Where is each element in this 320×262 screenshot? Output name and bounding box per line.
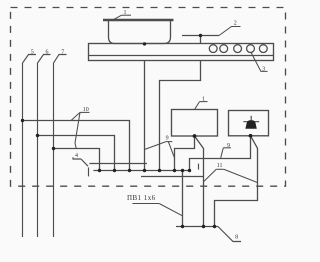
- label 1 top shelf: [122, 14, 132, 16]
- feeder wire 8: [218, 227, 241, 242]
- node bus 8: [188, 169, 191, 172]
- box U1: [172, 110, 218, 137]
- svg-text:5: 5: [31, 49, 34, 55]
- wire 6 vertical with leader: [38, 55, 51, 238]
- node wire6 tap: [36, 134, 39, 137]
- node bus 7: [181, 169, 184, 172]
- switch blade: [81, 159, 88, 166]
- panel hole 3: [234, 45, 242, 53]
- label 9 right leader: [221, 148, 224, 158]
- cable label shelf: [132, 203, 159, 205]
- box U1 right diagonal wire: [195, 136, 204, 227]
- riser wire: [182, 171, 184, 227]
- node box U2: [249, 134, 253, 138]
- node box U1: [193, 134, 197, 138]
- node bus 5: [158, 169, 161, 172]
- svg-text:10: 10: [83, 107, 89, 113]
- label 11 leader b: [224, 169, 258, 182]
- wire A horizontal to bus: [23, 121, 130, 171]
- panel hole 2: [220, 45, 228, 53]
- cord wire 2 horizontal: [182, 35, 219, 37]
- switch terminal bar: [88, 167, 90, 176]
- panel hole 5: [259, 45, 267, 53]
- label 11 shelf: [216, 168, 223, 170]
- cord wire 2 drop: [160, 36, 201, 171]
- svg-text:11: 11: [217, 163, 223, 169]
- box U1 label leader: [195, 102, 200, 110]
- parallel wire below bus: [141, 176, 204, 178]
- svg-text:4: 4: [75, 153, 78, 159]
- node wire5 tap: [21, 119, 24, 122]
- svg-text:2: 2: [234, 21, 237, 27]
- wire 7 vertical with leader: [54, 55, 67, 238]
- svg-text:1: 1: [124, 10, 127, 16]
- label 2 leader: [219, 27, 241, 36]
- label 9 left leader b: [168, 142, 174, 158]
- label 9 left leader a: [145, 142, 166, 150]
- node bus 1: [98, 169, 101, 172]
- label 9 left shelf: [166, 141, 172, 143]
- svg-text:6: 6: [46, 49, 49, 55]
- svg-text:ПВ1 1х6: ПВ1 1х6: [127, 194, 156, 202]
- box U1 left wire: [175, 136, 195, 171]
- panel hole 1: [209, 45, 217, 53]
- panel inner line: [89, 55, 274, 57]
- svg-text:8: 8: [235, 235, 238, 241]
- label 3 leader: [251, 52, 268, 71]
- node kettle on panel: [143, 42, 146, 45]
- wire B horizontal to bus: [38, 136, 115, 171]
- label 10 shelf: [80, 111, 90, 113]
- node bus 3: [128, 169, 131, 172]
- svg-text:7: 7: [61, 49, 64, 55]
- node bus 2: [113, 169, 116, 172]
- kettle body: [109, 21, 171, 44]
- label 10 leader b: [75, 112, 80, 148]
- wire C horizontal to bus: [54, 149, 100, 171]
- panel hole 4: [247, 45, 255, 53]
- branch wire bus end to box U2: [190, 136, 251, 171]
- lower bus: [176, 226, 218, 228]
- node lower bus 3: [213, 225, 216, 228]
- label 10 leader a: [71, 112, 80, 120]
- box U2 lamp: [229, 111, 269, 136]
- node cord tap: [199, 34, 202, 37]
- counter panel body: [89, 44, 274, 61]
- cable label leader: [159, 204, 182, 216]
- svg-text:1: 1: [202, 97, 205, 103]
- wire 5 vertical with leader: [23, 55, 37, 238]
- lamp crossbar: [243, 121, 259, 123]
- svg-text:9: 9: [166, 136, 169, 142]
- node lower bus 1: [181, 225, 184, 228]
- kettle drop wire: [144, 44, 146, 171]
- node bus 6: [173, 169, 176, 172]
- lamp shade: [245, 120, 256, 129]
- upper bus: [93, 170, 189, 172]
- svg-text:3: 3: [262, 67, 265, 73]
- parallel wire above bus: [89, 163, 147, 165]
- terminal bar I at bus right: [198, 164, 200, 170]
- label 9 right shelf: [223, 147, 231, 149]
- label 1 top leader: [114, 15, 122, 19]
- box U2 down wire: [215, 136, 258, 227]
- node wire7 tap: [52, 147, 55, 150]
- dashed room border: [11, 8, 286, 187]
- box U1 label 1 shelf: [200, 101, 208, 103]
- node bus 4: [143, 169, 146, 172]
- switch S leader shelf 4: [73, 157, 81, 159]
- label 11 leader a: [204, 169, 216, 181]
- lamp stem: [250, 116, 252, 120]
- kettle lid: [103, 19, 174, 21]
- node lower bus 2: [202, 225, 205, 228]
- svg-text:9: 9: [227, 143, 230, 149]
